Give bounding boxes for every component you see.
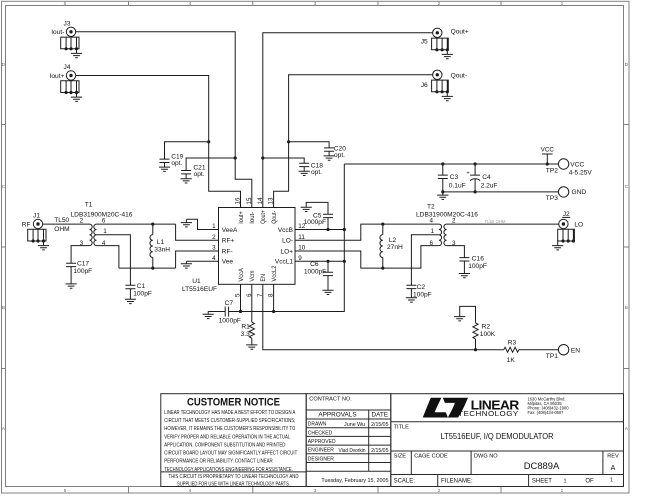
svg-text:VERIFY PROPER AND RELIABLE OPE: VERIFY PROPER AND RELIABLE OPERATION IN … [164, 434, 290, 440]
svg-text:FILENAME:: FILENAME: [441, 479, 473, 485]
wire J4 Iout+ to U1 pin 16 [76, 76, 241, 208]
svg-text:5: 5 [64, 488, 67, 494]
wire J5 Qout+ to U1 pin 14 [263, 33, 433, 208]
wire U1 pin 4 Vee to ground [186, 260, 218, 262]
svg-text:2: 2 [452, 217, 456, 224]
svg-text:J1: J1 [33, 213, 40, 220]
junction C3 / VCC [441, 162, 444, 165]
capacitor C21 (opt.) [186, 158, 235, 171]
wire GND rail to TP3 [443, 191, 559, 193]
junction C3 / GND rail [441, 190, 444, 193]
wire R3 to TP1 [519, 349, 559, 351]
junction C4 / GND rail [474, 190, 477, 193]
svg-text:EN: EN [260, 274, 267, 282]
svg-text:4: 4 [189, 1, 192, 7]
svg-text:33nH: 33nH [154, 246, 170, 253]
wire J3 Iout- to U1 pin 15 [76, 32, 252, 208]
svg-text:CIRCUIT THAT MEETS CUSTOMER-SU: CIRCUIT THAT MEETS CUSTOMER-SUPPLIED SPE… [164, 418, 295, 424]
svg-text:VccL2: VccL2 [271, 265, 278, 281]
wire RF- to U1 pin 3 [176, 251, 219, 268]
wire U1 pin 7 EN net [263, 284, 504, 349]
svg-text:T2: T2 [427, 204, 435, 211]
svg-text:1: 1 [564, 479, 567, 485]
wire T1 pin 4 to RF- rail [97, 246, 119, 269]
svg-text:CONTRACT NO.: CONTRACT NO. [309, 397, 352, 403]
title block [161, 394, 624, 487]
connector J5 Qout+ [432, 28, 453, 59]
wire U1 pin 5 VccA [240, 284, 242, 311]
svg-text:EN: EN [571, 347, 580, 354]
inductor L2 27nH [382, 224, 384, 235]
svg-text:1000pF: 1000pF [219, 318, 241, 325]
junction node Iout- / C21 [234, 156, 237, 159]
junction node Iout+ / C19 [207, 140, 210, 143]
capacitor C16 100pF [447, 246, 465, 258]
svg-text:TECHNOLOGY APPLICATIONS ENGINE: TECHNOLOGY APPLICATIONS ENGINEERING FOR … [164, 467, 293, 473]
svg-text:Iout-: Iout- [249, 212, 256, 224]
svg-text:C4: C4 [482, 174, 491, 181]
capacitor C17 100pF [71, 246, 89, 264]
svg-text:DC889A: DC889A [524, 460, 560, 471]
svg-text:Qout+: Qout+ [260, 210, 267, 224]
svg-text:C1: C1 [137, 283, 146, 290]
Linear Technology logo [423, 398, 468, 418]
svg-text:J5: J5 [421, 38, 428, 45]
capacitor C7 1000pF [208, 311, 225, 313]
wire U1 pin 12 VccB [295, 229, 344, 231]
svg-text:J3: J3 [64, 20, 71, 27]
svg-text:2: 2 [438, 1, 441, 7]
svg-text:RF-: RF- [222, 248, 233, 255]
svg-text:opt.: opt. [171, 160, 182, 167]
svg-text:DATE: DATE [372, 412, 389, 419]
capacitor C4 2.2uF polarized [474, 164, 476, 175]
wire U1 pin 11 LO- to T2 pin 4 [295, 224, 439, 240]
junction VCC line / pin 9 [343, 260, 346, 263]
junction pin 5 / rail [239, 310, 242, 313]
svg-text:C6: C6 [310, 261, 319, 268]
svg-text:CAGE CODE: CAGE CODE [414, 453, 448, 459]
svg-text:TECHNOLOGY: TECHNOLOGY [458, 411, 519, 418]
svg-text:2.2uF: 2.2uF [481, 182, 498, 189]
svg-text:OHM: OHM [54, 226, 69, 233]
wire RF+ to U1 pin 2 [176, 224, 219, 240]
svg-text:D: D [2, 62, 6, 68]
VCC power flag [542, 154, 553, 164]
svg-text:4: 4 [429, 217, 433, 224]
svg-text:APPROVALS: APPROVALS [318, 412, 356, 419]
svg-text:3: 3 [314, 488, 317, 494]
svg-text:100pF: 100pF [413, 291, 432, 298]
connector J4 Iout+ [61, 71, 82, 102]
svg-text:2/15/05: 2/15/05 [371, 448, 388, 454]
connector J3 Iout- [61, 27, 82, 58]
svg-text:6: 6 [102, 217, 106, 224]
svg-text:1K: 1K [507, 357, 516, 364]
svg-text:LINEAR TECHNOLOGY HAS MADE A B: LINEAR TECHNOLOGY HAS MADE A BEST EFFORT… [164, 410, 295, 416]
svg-text:Iout+: Iout+ [238, 211, 245, 224]
svg-text:VCC: VCC [541, 147, 555, 154]
svg-text:THIS CIRCUIT IS PROPRIETARY TO: THIS CIRCUIT IS PROPRIETARY TO LINEAR TE… [169, 474, 299, 480]
svg-text:1: 1 [561, 488, 564, 494]
svg-text:100pF: 100pF [468, 263, 487, 270]
svg-text:SIZE: SIZE [394, 453, 407, 459]
svg-text:3.3: 3.3 [241, 331, 250, 338]
svg-text:VccA: VccA [238, 268, 245, 282]
svg-text:1: 1 [431, 228, 435, 235]
op-amp U1 LT5516EUF I/Q demodulator [219, 208, 296, 285]
svg-text:Qout-: Qout- [451, 72, 468, 79]
svg-text:APPROVED: APPROVED [308, 439, 336, 445]
svg-text:DWG NO: DWG NO [474, 453, 498, 459]
connector J2 LO [552, 219, 575, 250]
wire T2 pin 2 to J2 LO [447, 223, 559, 225]
test point TP2 VCC [558, 159, 568, 169]
svg-text:OF: OF [585, 479, 594, 485]
svg-text:L1: L1 [157, 239, 165, 246]
junction C4 / VCC [474, 162, 477, 165]
resistor R1 3.3 on Vcm [251, 284, 253, 322]
svg-text:TITLE: TITLE [394, 425, 409, 431]
svg-text:Vee: Vee [222, 259, 234, 266]
junction L1 bottom [151, 267, 154, 270]
svg-text:LO: LO [574, 221, 583, 228]
svg-text:L2: L2 [389, 237, 397, 244]
svg-text:SUPPLIED FOR USE WITH LINEAR T: SUPPLIED FOR USE WITH LINEAR TECHNOLOGY … [177, 481, 290, 487]
svg-text:VeeA: VeeA [222, 227, 238, 234]
wire U1 pin 8 VccL2 [273, 284, 275, 311]
svg-text:B: B [2, 305, 5, 311]
ground at C7 [207, 312, 209, 315]
svg-text:R3: R3 [508, 339, 517, 346]
capacitor C3 0.1uF [442, 164, 444, 175]
svg-text:RF+: RF+ [222, 238, 235, 245]
svg-text:1: 1 [561, 1, 564, 7]
svg-text:U1: U1 [192, 278, 201, 285]
junction L2 bottom [381, 267, 384, 270]
capacitor C5 1000pF [327, 218, 329, 230]
svg-text:C: C [2, 184, 6, 190]
svg-text:16: 16 [235, 197, 242, 205]
capacitor C2 100pF on T2 center tap [411, 235, 439, 285]
svg-text:Fax: (408)434-0507: Fax: (408)434-0507 [528, 410, 565, 415]
svg-text:J6: J6 [421, 82, 428, 89]
svg-text:LDB31900M20C-416: LDB31900M20C-416 [416, 212, 478, 219]
svg-text:0.1uF: 0.1uF [449, 182, 466, 189]
test point TP1 EN [558, 345, 568, 355]
connector J6 Qout- [432, 70, 453, 101]
svg-text:Qout-: Qout- [271, 211, 278, 224]
svg-text:LT5516EUF: LT5516EUF [182, 286, 217, 293]
svg-text:SHEET: SHEET [532, 479, 552, 485]
svg-text:27nH: 27nH [387, 244, 403, 251]
svg-text:opt.: opt. [194, 171, 205, 178]
ground at C3 [442, 192, 444, 195]
svg-text:1000pF: 1000pF [304, 268, 326, 275]
svg-text:CIRCUIT BOARD LAYOUT MAY SIGNI: CIRCUIT BOARD LAYOUT MAY SIGNIFICANTLY A… [164, 451, 298, 457]
svg-text:2/15/05: 2/15/05 [371, 422, 388, 428]
svg-text:CHECKED: CHECKED [308, 430, 333, 436]
svg-text:REV: REV [607, 453, 619, 459]
svg-text:CUSTOMER NOTICE: CUSTOMER NOTICE [187, 396, 280, 408]
svg-text:4: 4 [189, 488, 192, 494]
wire U1 pin 1 VeeA to ground [186, 219, 218, 229]
svg-text:VCC: VCC [570, 162, 584, 169]
junction L1 top [151, 223, 154, 226]
svg-text:Vcm: Vcm [249, 271, 256, 282]
junction C6 / pin 9 [326, 260, 329, 263]
svg-text:TP1: TP1 [546, 353, 558, 360]
T2 primary winding (pins 2-3) [444, 224, 447, 246]
svg-text:+: + [466, 170, 469, 176]
wire VccA/VccL2 rail up to VCC [229, 164, 345, 312]
wire J6 Qout- to U1 pin 13 [274, 75, 433, 208]
svg-text:C: C [625, 184, 629, 190]
wire U1 pin 10 LO+ to T2 pin 6 [295, 246, 439, 269]
svg-text:TP2: TP2 [546, 167, 558, 174]
capacitor C19 (opt.) [165, 142, 209, 159]
junction node Qout+ / C18 [261, 156, 264, 159]
svg-text:LO-: LO- [282, 238, 293, 245]
svg-text:C7: C7 [225, 300, 234, 307]
junction node Qout- / C20 [287, 140, 290, 143]
svg-text:Qout+: Qout+ [451, 28, 469, 35]
svg-text:DESIGNER: DESIGNER [308, 456, 335, 462]
svg-text:RF: RF [22, 221, 31, 228]
svg-text:GND: GND [572, 189, 587, 196]
svg-text:ENGINEER: ENGINEER [308, 448, 335, 454]
svg-text:A: A [611, 465, 616, 472]
svg-text:2: 2 [438, 488, 441, 494]
svg-text:2: 2 [80, 217, 84, 224]
svg-text:LT5516EUF, I/Q DEMODULATOR: LT5516EUF, I/Q DEMODULATOR [441, 431, 554, 441]
capacitor C1 100pF on T1 center tap [97, 235, 131, 285]
svg-text:C2: C2 [417, 284, 426, 291]
svg-text:C16: C16 [472, 256, 484, 263]
svg-text:APPLICATION. COMPONENT SUBSTI: APPLICATION. COMPONENT SUBSTITUTION AND … [164, 442, 285, 448]
wire RF- rail [119, 267, 176, 269]
junction R2 / EN [474, 348, 477, 351]
T2 secondary winding (pins 4-1-6) [439, 224, 442, 246]
svg-text:C17: C17 [77, 260, 89, 267]
svg-text:Tuesday, February 15, 2005: Tuesday, February 15, 2005 [321, 478, 388, 484]
svg-text:J4: J4 [64, 64, 71, 71]
svg-text:TL50 OHM: TL50 OHM [484, 219, 505, 224]
svg-text:DRAWN: DRAWN [308, 422, 327, 428]
svg-text:R2: R2 [482, 323, 491, 330]
ground at R1 [246, 345, 257, 349]
wire U1 pin 9 VccL1 [295, 260, 344, 262]
svg-text:C3: C3 [450, 174, 459, 181]
ground at C5 [301, 207, 312, 211]
svg-text:VccL1: VccL1 [275, 259, 293, 266]
wire J1 to T1 pin 2 [43, 223, 90, 225]
svg-text:100pF: 100pF [74, 268, 93, 275]
resistor R3 1K [504, 347, 519, 352]
svg-text:TL50: TL50 [54, 217, 69, 224]
svg-text:LO+: LO+ [281, 248, 294, 255]
svg-text:SCALE:: SCALE: [394, 479, 416, 485]
test point TP3 GND [558, 187, 568, 197]
svg-text:June Wu: June Wu [344, 422, 365, 428]
svg-text:Iout+: Iout+ [50, 73, 65, 80]
svg-text:B: B [625, 305, 628, 311]
svg-text:HOWEVER, IT REMAINS THE CUSTOM: HOWEVER, IT REMAINS THE CUSTOMER'S RESPO… [164, 426, 296, 432]
capacitor C20 (opt.) [289, 142, 330, 148]
junction VCC flag / rail [546, 162, 549, 165]
svg-text:14: 14 [257, 197, 264, 205]
junction C5 / pin 12 [326, 228, 329, 231]
capacitor C6 1000pF [327, 261, 329, 272]
svg-text:15: 15 [246, 197, 253, 205]
svg-text:3: 3 [314, 1, 317, 7]
svg-text:6: 6 [429, 240, 433, 247]
junction pin 8 / rail [272, 310, 275, 313]
T1 secondary winding (pins 6-1-4) [94, 224, 97, 246]
svg-text:VccB: VccB [278, 227, 293, 234]
svg-text:1: 1 [103, 228, 107, 235]
T1 primary winding (pins 2-3) [90, 224, 93, 246]
ground at U1 pin 1 [185, 219, 187, 222]
connector J1 RF [28, 219, 49, 250]
svg-text:1000pF: 1000pF [304, 219, 326, 226]
svg-text:5: 5 [64, 1, 67, 7]
svg-text:opt.: opt. [334, 152, 345, 159]
wire T1 pin 6 RF+ rail [97, 223, 176, 225]
svg-text:Iout-: Iout- [51, 29, 64, 36]
junction VCC line / pin 12 [343, 228, 346, 231]
svg-text:PERFORMANCE OR RELIABILITY. C: PERFORMANCE OR RELIABILITY. CONTACT LINE… [164, 459, 272, 465]
svg-text:opt.: opt. [311, 169, 322, 176]
svg-text:13: 13 [268, 197, 275, 205]
svg-text:1: 1 [610, 478, 613, 484]
junction L2 top [381, 223, 384, 226]
svg-text:R1: R1 [241, 323, 250, 330]
svg-text:4-5.25V: 4-5.25V [569, 169, 593, 176]
ground at U1 pin 4 [185, 261, 187, 264]
capacitor C18 (opt.) [263, 158, 304, 163]
svg-text:100pF: 100pF [133, 291, 152, 298]
wire VCC rail [344, 163, 558, 165]
svg-text:TP3: TP3 [546, 195, 558, 202]
ground at R2 [454, 317, 465, 321]
svg-text:100K: 100K [480, 331, 496, 338]
inductor L1 33nH [152, 224, 154, 235]
svg-text:D: D [625, 62, 629, 68]
svg-text:T1: T1 [85, 201, 93, 208]
svg-text:Vlad Dvorkin: Vlad Dvorkin [339, 448, 366, 454]
